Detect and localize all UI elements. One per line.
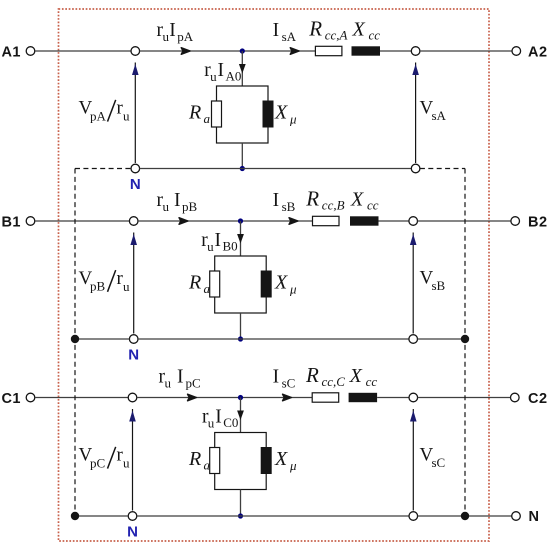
label r_u I_A0 (204, 60, 241, 84)
label R_a phase B (188, 272, 211, 297)
label X_cc phase C (349, 365, 378, 389)
node open circle right on phase B (409, 217, 418, 226)
arrow V_pA/r_u (132, 63, 139, 164)
rail B left segment (75, 338, 129, 340)
neutral dashed vertical right (464, 169, 466, 517)
svg-text:N: N (130, 176, 141, 193)
label V_pC/r_u (79, 445, 131, 471)
reactance X_mu phase A (263, 101, 273, 127)
wire A1 to node (35, 50, 131, 52)
arrow V_pB/r_u (130, 233, 137, 334)
svg-text:B0: B0 (223, 239, 238, 254)
svg-text:X: X (349, 365, 363, 387)
magnetising branch box phase B (215, 256, 267, 313)
arrow V_sB (410, 233, 417, 334)
svg-text:I: I (273, 190, 280, 211)
reactance X_cc phase A (352, 46, 381, 55)
label V_pA/r_u (79, 98, 131, 124)
rail C left segment (75, 515, 128, 517)
svg-text:C2: C2 (528, 391, 548, 407)
svg-text:B1: B1 (1, 215, 21, 231)
label X_mu phase A (274, 102, 297, 127)
label r_u I_pC (159, 367, 201, 391)
arrow I_sA (290, 48, 299, 55)
rail wire phase A middle (140, 168, 412, 170)
label X_cc phase A (352, 19, 381, 43)
arrow r_u I_B0 down (237, 234, 244, 244)
svg-text:C1: C1 (1, 391, 21, 407)
svg-text:μ: μ (289, 112, 297, 127)
svg-text:R: R (188, 272, 201, 294)
svg-text:N: N (128, 347, 139, 364)
wire node to R_cc,A (140, 50, 316, 52)
wire C1 to node (35, 397, 128, 399)
label V_pB/r_u (79, 268, 131, 294)
svg-text:u: u (123, 456, 130, 471)
resistor R_cc,A (315, 46, 342, 55)
terminal C1 circle (26, 393, 35, 402)
svg-text:u: u (123, 109, 130, 124)
junction dot on phase C main (238, 395, 243, 400)
svg-text:μ: μ (289, 458, 297, 473)
svg-text:I: I (169, 20, 176, 41)
label I_sB (273, 190, 296, 214)
rail A dashed left segment (75, 168, 131, 170)
svg-text:a: a (204, 281, 211, 296)
wire junction down to box (240, 398, 242, 433)
svg-text:X: X (350, 189, 364, 211)
reactance X_cc phase B (350, 216, 379, 225)
rail B right segment (418, 338, 466, 340)
svg-text:X: X (274, 448, 288, 470)
wire box bottom to rail phase B (240, 313, 242, 339)
svg-text:pA: pA (177, 29, 194, 44)
label R_cc,C (305, 363, 345, 389)
svg-text:pA: pA (90, 108, 107, 123)
node N circle on rail phase A (131, 164, 140, 173)
svg-text:I: I (273, 20, 280, 41)
svg-text:sB: sB (432, 278, 446, 293)
svg-text:R: R (188, 448, 201, 470)
label I_sA (273, 20, 297, 44)
node open circle left on phase A (131, 47, 140, 56)
svg-text:pB: pB (90, 279, 106, 294)
label r_u I_pB (157, 190, 198, 214)
node open circle right on rail A (411, 164, 420, 173)
node open circle left on phase B (129, 217, 138, 226)
svg-text:sA: sA (432, 108, 447, 123)
svg-text:I: I (177, 367, 184, 388)
wire junction down to box (240, 221, 242, 256)
rail A dashed right segment (420, 168, 465, 170)
arrow r_u I_A0 down (239, 64, 246, 74)
svg-text:R: R (305, 187, 319, 211)
terminal N circle (512, 512, 521, 521)
label r_u I_C0 (202, 407, 238, 431)
node N circle on rail phase B (129, 335, 138, 344)
label X_cc phase B (350, 189, 379, 213)
reactance X_cc phase C (349, 393, 378, 402)
svg-text:cc,B: cc,B (322, 198, 345, 213)
wire right node to terminal B2 (418, 220, 511, 222)
svg-text:pC: pC (90, 455, 105, 470)
junction dot right rail B (461, 335, 469, 343)
label X_mu phase B (274, 272, 297, 297)
terminal C2 circle (511, 393, 520, 402)
wire B1 to node (35, 220, 129, 222)
arrow r_u I_pC (188, 394, 197, 401)
svg-text:B2: B2 (528, 215, 548, 231)
label V_sB (420, 268, 446, 294)
svg-text:A0: A0 (226, 69, 242, 84)
arrow I_sB (289, 218, 298, 225)
svg-text:sC: sC (432, 455, 446, 470)
terminal A1 circle (26, 47, 35, 56)
junction dot on rail phase B (238, 336, 243, 341)
label r_u I_pA (157, 20, 194, 44)
arrow r_u I_pA (181, 48, 190, 55)
label V_sA (420, 97, 447, 123)
svg-text:I: I (218, 60, 225, 81)
svg-text:u: u (210, 69, 217, 84)
resistor R_a phase B (210, 271, 220, 297)
wire node to R_cc,B (138, 220, 313, 222)
reactance X_mu phase C (261, 448, 271, 474)
svg-text:R: R (308, 17, 322, 41)
junction dot right rail C (461, 512, 469, 520)
terminal B2 circle (511, 217, 520, 226)
red dotted boundary box (59, 9, 490, 541)
junction dot on rail phase A (240, 166, 245, 171)
node open circle right on phase A (411, 47, 420, 56)
junction dot on phase B main (238, 218, 243, 223)
label R_a phase A (188, 102, 211, 127)
svg-text:u: u (207, 239, 214, 254)
svg-text:C0: C0 (223, 415, 238, 430)
svg-text:cc,A: cc,A (325, 28, 348, 43)
svg-text:R: R (188, 102, 201, 124)
junction dot on rail phase C (238, 513, 243, 518)
svg-text:cc: cc (367, 198, 379, 213)
svg-text:cc: cc (366, 374, 378, 389)
arrow I_sC (283, 394, 292, 401)
svg-text:I: I (215, 230, 222, 251)
label R_cc,A (308, 17, 347, 43)
svg-text:u: u (163, 199, 170, 214)
neutral dashed vertical left (74, 169, 76, 517)
svg-text:N: N (529, 509, 539, 525)
terminal B1 circle (26, 217, 35, 226)
label R_a phase C (188, 448, 211, 473)
junction dot on phase A main (240, 48, 245, 53)
arrow r_u I_C0 down (237, 411, 244, 421)
reactance X_mu phase B (261, 271, 271, 297)
terminal A2 circle (512, 47, 521, 56)
rail C right segment to N terminal (418, 515, 512, 517)
wire X_cc to right node phase B (379, 220, 409, 222)
svg-text:u: u (123, 279, 130, 294)
label I_sC (273, 367, 296, 391)
svg-text:I: I (273, 367, 280, 388)
svg-text:cc,C: cc,C (322, 374, 346, 389)
svg-text:u: u (208, 416, 215, 431)
wire box bottom to rail phase A (241, 143, 243, 169)
svg-text:a: a (204, 458, 211, 473)
rail wire phase B middle (138, 338, 409, 340)
svg-text:X: X (274, 272, 288, 294)
svg-text:I: I (215, 407, 222, 428)
svg-text:A1: A1 (1, 45, 21, 61)
wire box bottom to rail phase C (240, 490, 242, 517)
junction dot left rail B (71, 335, 79, 343)
svg-text:pC: pC (186, 376, 201, 391)
svg-text:I: I (174, 190, 181, 211)
svg-text:R: R (305, 363, 319, 387)
arrow V_pC/r_u (129, 409, 136, 511)
svg-text:sB: sB (282, 199, 296, 214)
node N circle on rail phase C (128, 512, 137, 521)
rail wire phase C middle (137, 515, 409, 517)
svg-text:A2: A2 (528, 45, 548, 61)
node open circle right on rail C (409, 512, 418, 521)
svg-text:N: N (127, 524, 138, 541)
node open circle right on rail B (409, 335, 418, 344)
wire junction down to box (241, 51, 243, 86)
svg-text:X: X (352, 19, 366, 41)
resistor R_a phase C (210, 448, 220, 474)
resistor R_cc,B (313, 216, 340, 225)
arrow V_sA (412, 63, 419, 164)
wire right node to terminal C2 (418, 397, 511, 399)
svg-text:a: a (204, 111, 211, 126)
wire X_cc to right node phase C (377, 397, 409, 399)
wire node to R_cc,C (137, 397, 312, 399)
resistor R_cc,C (312, 393, 339, 402)
svg-text:X: X (274, 102, 288, 124)
svg-text:sC: sC (282, 376, 296, 391)
magnetising branch box phase C (215, 433, 267, 490)
svg-text:u: u (165, 376, 172, 391)
svg-text:pB: pB (182, 199, 198, 214)
arrow V_sC (410, 409, 417, 511)
svg-text:cc: cc (369, 28, 381, 43)
svg-text:sA: sA (282, 29, 297, 44)
label R_cc,B (305, 187, 344, 213)
junction dot left rail C (71, 512, 79, 520)
resistor R_a phase A (212, 101, 222, 127)
label X_mu phase C (274, 448, 297, 473)
label V_sC (420, 444, 446, 470)
wire right node to terminal A2 (420, 50, 512, 52)
magnetising branch box phase A (217, 86, 269, 143)
node open circle right on phase C (409, 393, 418, 402)
wire X_cc to right node phase A (380, 50, 411, 52)
svg-text:μ: μ (289, 282, 297, 297)
arrow r_u I_pB (179, 218, 188, 225)
node open circle left on phase C (128, 393, 137, 402)
label r_u I_B0 (201, 230, 237, 254)
